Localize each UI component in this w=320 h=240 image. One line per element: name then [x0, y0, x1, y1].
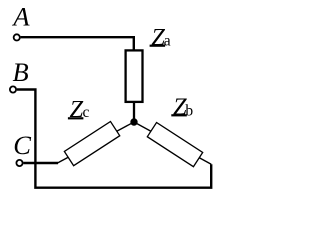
impedance Zc	[64, 121, 119, 165]
svg-text:c: c	[83, 104, 90, 121]
label Zb	[171, 93, 193, 120]
impedance Za	[126, 50, 143, 102]
svg-text:B: B	[13, 57, 29, 87]
wire C to Zc	[23, 162, 58, 164]
wire A to Za	[21, 37, 134, 50]
node N (neutral junction)	[130, 118, 137, 125]
terminal B	[10, 86, 16, 92]
wire C end to node N (under Zc)	[58, 122, 135, 163]
wire node N to corner (under Zb)	[134, 122, 211, 164]
label Za	[150, 24, 171, 51]
svg-text:C: C	[13, 130, 31, 160]
wire B around bottom to Zb	[17, 90, 211, 188]
wire Za to node N	[133, 102, 135, 122]
label Zc	[68, 96, 90, 123]
svg-text:A: A	[11, 2, 30, 32]
impedance Zb	[147, 122, 202, 166]
terminal A	[14, 34, 20, 40]
svg-text:b: b	[185, 103, 193, 120]
terminal C	[16, 160, 22, 166]
svg-text:a: a	[164, 33, 171, 50]
